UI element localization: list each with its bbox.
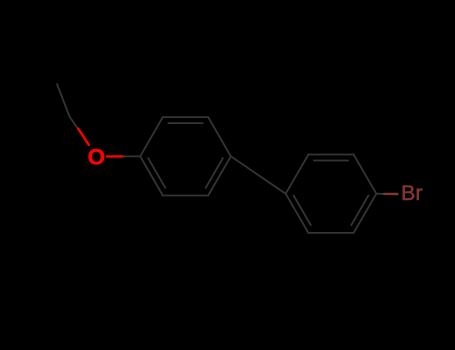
bond CH2-O oxygen half (red) [78, 129, 89, 145]
right ring double bond inner BL-L [294, 196, 311, 226]
left ring edge BL-L [140, 156, 163, 195]
left ring edge TL-TR [163, 116, 208, 118]
left ring double bond inner top [168, 122, 202, 124]
bond O-ring carbon half [123, 155, 140, 157]
right ring edge TL-TR [308, 154, 353, 156]
right ring double bond inner top [314, 160, 348, 162]
right ring edge BL-L [286, 194, 309, 233]
right ring edge BR-BL [308, 232, 353, 234]
right ring double bond inner R-BR [351, 196, 368, 226]
left ring edge TR-R [208, 117, 231, 156]
right ring edge L-TL [286, 155, 309, 194]
bond O-ring oxygen half (red) [107, 155, 124, 157]
svg-text:O: O [88, 144, 106, 169]
left ring edge L-TL [140, 117, 163, 156]
left ring double bond inner BL-L [148, 158, 165, 188]
bond CH3-CH2 (ethyl terminal) [57, 84, 70, 117]
bond CH2-O carbon half [70, 117, 80, 131]
left ring edge BR-BL [163, 195, 208, 197]
right ring edge TR-R [354, 155, 377, 194]
svg-text:Br: Br [401, 181, 423, 205]
right ring edge R-BR [354, 194, 377, 233]
bond ring-Br carbon half [376, 193, 384, 195]
left ring edge R-BR [208, 156, 231, 195]
bond ring-Br bromine half (dark red) [384, 193, 398, 196]
left ring double bond inner R-BR [206, 158, 223, 188]
inter-ring biphenyl bond [231, 156, 286, 193]
